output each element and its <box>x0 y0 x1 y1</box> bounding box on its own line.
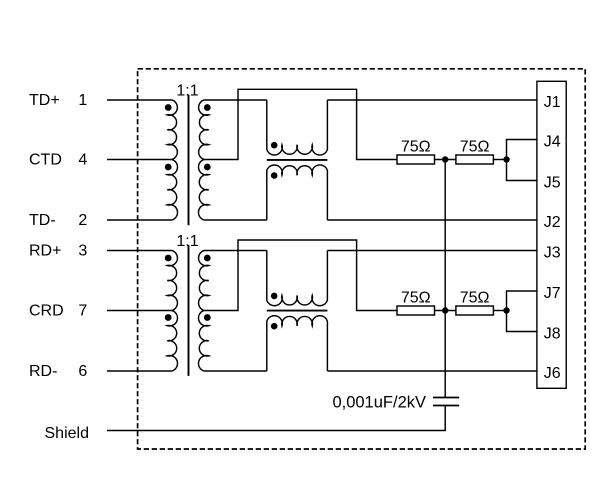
svg-text:RD-: RD- <box>29 363 57 380</box>
svg-text:0,001uF/2kV: 0,001uF/2kV <box>332 393 426 411</box>
wire T1 secondary bottom to choke L1 <box>204 219 267 221</box>
svg-text:J6: J6 <box>544 365 561 382</box>
svg-text:1:1: 1:1 <box>176 233 198 250</box>
choke L1 lower phase dot <box>271 172 278 179</box>
node B junction dot <box>503 156 509 162</box>
wire RD+ pin3 to T2 primary top <box>107 250 172 252</box>
wire node A to node C to capacitor <box>444 160 446 398</box>
wire RD- pin6 to T2 primary bottom <box>107 370 172 372</box>
wire R2 to node B <box>493 159 506 161</box>
svg-text:75Ω: 75Ω <box>460 289 490 306</box>
svg-text:75Ω: 75Ω <box>401 138 431 155</box>
T1 primary lower phase dot <box>165 164 172 171</box>
choke L2 upper winding <box>267 251 328 306</box>
node A junction dot <box>442 156 448 162</box>
svg-text:TD-: TD- <box>29 212 56 229</box>
choke L2 upper phase dot <box>271 293 278 300</box>
wire R3 to node C <box>435 310 456 312</box>
node C junction dot <box>442 307 448 313</box>
capacitor C1 bottom plate <box>433 405 459 407</box>
connector box <box>537 81 566 388</box>
svg-text:J8: J8 <box>544 325 561 342</box>
transformer T1 primary winding lower half <box>167 160 177 221</box>
T1 secondary lower phase dot <box>204 164 211 171</box>
transformer T2 primary winding lower half <box>167 311 177 372</box>
wire choke L1 to J2 <box>327 219 537 221</box>
wire CRD pin7 to T2 primary center tap <box>107 310 172 312</box>
wire R4 to node D <box>493 310 506 312</box>
resistor R3 body <box>397 306 435 315</box>
wire TD- pin2 to T1 primary bottom <box>107 219 172 221</box>
node D junction dot <box>503 307 509 313</box>
choke L2 core <box>267 310 328 312</box>
T2 secondary lower phase dot <box>204 314 211 321</box>
choke L1 lower winding <box>267 165 328 220</box>
T2 primary upper phase dot <box>165 255 172 262</box>
choke L1 core <box>267 159 328 161</box>
wire R1 to node A <box>435 159 456 161</box>
T1 primary upper phase dot <box>165 104 172 111</box>
svg-text:3: 3 <box>78 243 87 260</box>
svg-text:4: 4 <box>78 152 87 169</box>
resistor R2 body <box>456 155 494 164</box>
svg-text:2: 2 <box>78 212 87 229</box>
resistor R4 body <box>456 306 494 315</box>
wire CTD pin4 to T1 primary center tap <box>107 159 172 161</box>
transformer T1 secondary winding lower half <box>198 160 208 221</box>
svg-text:J2: J2 <box>544 214 561 231</box>
svg-text:CRD: CRD <box>29 303 64 320</box>
wire T1 center tap rail to resistors <box>204 89 397 159</box>
svg-text:J7: J7 <box>544 285 561 302</box>
transformer T1 primary winding upper half <box>167 100 177 160</box>
wire capacitor to shield <box>107 406 445 431</box>
svg-text:CTD: CTD <box>29 152 62 169</box>
transformer T2 primary winding upper half <box>167 251 177 311</box>
choke L1 upper phase dot <box>271 142 278 149</box>
wire T2 secondary bottom to choke L2 <box>204 370 267 372</box>
wire node B to J4 and J5 <box>507 140 537 181</box>
module outline (dashed border) <box>138 69 586 449</box>
T2 secondary upper phase dot <box>204 255 211 262</box>
svg-text:RD+: RD+ <box>29 243 61 260</box>
svg-text:1: 1 <box>78 92 87 109</box>
resistor R1 body <box>397 155 435 164</box>
wire T1 secondary top to choke L1 <box>204 99 267 101</box>
svg-text:6: 6 <box>78 363 87 380</box>
T1 secondary upper phase dot <box>204 104 211 111</box>
transformer T2 secondary winding upper half <box>199 251 209 311</box>
wire choke L2 to J6 <box>327 370 537 372</box>
T2 primary lower phase dot <box>165 314 172 321</box>
svg-text:7: 7 <box>78 303 87 320</box>
svg-text:J4: J4 <box>544 133 561 150</box>
svg-text:1:1: 1:1 <box>176 82 198 99</box>
wire choke L1 to J1 <box>327 99 537 101</box>
wire TD+ pin1 to T1 primary top <box>107 99 172 101</box>
transformer T1 core <box>188 95 190 226</box>
svg-text:Shield: Shield <box>45 425 89 442</box>
transformer T1 secondary winding upper half <box>199 100 209 160</box>
svg-text:J5: J5 <box>544 174 561 191</box>
capacitor C1 top plate <box>433 397 459 399</box>
transformer T2 secondary winding lower half <box>198 311 208 372</box>
choke L2 lower phase dot <box>271 323 278 330</box>
wire choke L2 to J3 <box>327 250 537 252</box>
svg-text:J3: J3 <box>544 244 561 261</box>
wire node D to J7 and J8 <box>507 291 537 332</box>
svg-text:75Ω: 75Ω <box>401 289 431 306</box>
svg-text:75Ω: 75Ω <box>460 138 490 155</box>
wire T2 center tap rail to resistors <box>204 240 397 311</box>
wire T2 secondary top to choke L2 <box>204 250 267 252</box>
choke L2 lower winding <box>267 316 328 371</box>
svg-text:J1: J1 <box>544 94 561 111</box>
svg-text:TD+: TD+ <box>29 92 60 109</box>
transformer T2 core <box>188 245 190 376</box>
choke L1 upper winding <box>267 100 328 155</box>
